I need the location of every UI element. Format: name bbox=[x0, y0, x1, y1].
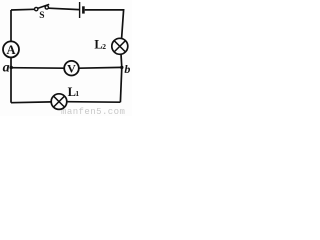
node a junction dot bbox=[10, 66, 13, 69]
switch S bbox=[35, 4, 50, 10]
lamp L2 bbox=[112, 38, 128, 54]
wire: voltmeter to node b bbox=[79, 66, 122, 69]
wire: battery to top-right corner and down to lamp L2 bbox=[85, 10, 124, 39]
svg-text:b: b bbox=[124, 62, 130, 76]
ammeter A bbox=[3, 41, 19, 57]
svg-text:1: 1 bbox=[75, 89, 79, 98]
wire: node b to bottom-right corner bbox=[120, 67, 121, 102]
svg-text:a: a bbox=[3, 61, 10, 76]
wire: ammeter up to top-left corner bbox=[10, 10, 12, 41]
svg-text:manfen5.com: manfen5.com bbox=[61, 107, 125, 116]
svg-text:S: S bbox=[39, 11, 44, 21]
lamp L1 bbox=[51, 94, 67, 110]
voltmeter V bbox=[64, 61, 79, 76]
wire: bottom right segment (corner to lamp L1) bbox=[67, 101, 120, 104]
svg-text:2: 2 bbox=[102, 42, 106, 51]
wire: lamp L2 to node b bbox=[120, 54, 123, 67]
wire: top-left horizontal (corner to switch) bbox=[11, 8, 34, 11]
node b junction dot bbox=[120, 66, 123, 69]
wire: lamp L1 to bottom-left corner bbox=[11, 101, 51, 104]
background bbox=[0, 0, 132, 116]
wire: switch to battery bbox=[49, 8, 79, 9]
wire: node a up to ammeter bbox=[10, 57, 12, 67]
wire: bottom-left corner up to node a bbox=[10, 68, 12, 103]
svg-text:A: A bbox=[6, 43, 15, 57]
battery bbox=[80, 2, 84, 18]
wire: middle a to voltmeter bbox=[11, 67, 64, 70]
svg-text:V: V bbox=[67, 62, 76, 76]
